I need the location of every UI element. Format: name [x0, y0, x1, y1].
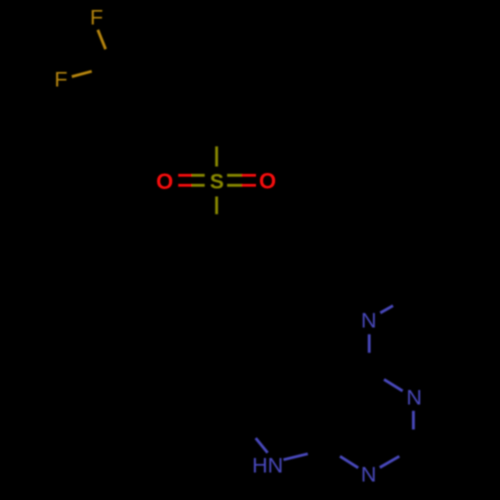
svg-text:N: N — [361, 309, 377, 333]
svg-text:F: F — [54, 68, 67, 92]
svg-text:N: N — [361, 462, 377, 486]
svg-text:HN: HN — [252, 454, 283, 478]
svg-text:S: S — [210, 171, 224, 194]
svg-text:O: O — [259, 169, 276, 194]
svg-text:O: O — [156, 169, 173, 194]
svg-text:F: F — [90, 5, 103, 29]
svg-text:N: N — [406, 386, 422, 410]
